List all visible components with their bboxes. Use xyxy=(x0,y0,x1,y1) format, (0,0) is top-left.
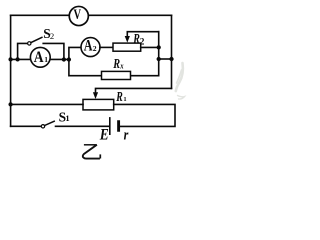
svg-text:V: V xyxy=(74,6,82,22)
junction node: S2 right riser / rail xyxy=(62,57,66,61)
svg-text:R: R xyxy=(132,31,140,46)
switch S2 contact circle xyxy=(28,42,31,45)
ammeter A2 circle xyxy=(81,38,100,57)
switch S1 lever xyxy=(45,121,55,125)
svg-text:1: 1 xyxy=(123,96,126,103)
svg-text:A: A xyxy=(34,49,44,66)
resistor Rx box xyxy=(102,71,131,79)
caption: Chinese character yi xyxy=(83,145,101,159)
wire: R1 slider wire from right frame xyxy=(96,88,172,92)
wire: R2 right lead xyxy=(141,46,159,48)
junction node: bus / link wire xyxy=(157,57,161,61)
wire: S2 right segment and riser down xyxy=(43,43,64,59)
wire: ammeter rail xyxy=(11,58,69,60)
wire: bottom rail to S1 xyxy=(11,125,42,127)
wire: right inner bus down to Rx xyxy=(131,32,159,76)
battery short plate xyxy=(117,122,120,131)
svg-text:x: x xyxy=(119,61,124,71)
wire: top rail left of voltmeter xyxy=(11,14,70,16)
wire: A2 to R2 xyxy=(100,46,113,48)
battery long plate xyxy=(109,118,111,134)
svg-text:E: E xyxy=(99,127,109,144)
arrowhead of rheostat R2 slider xyxy=(125,36,130,43)
junction node: S2 left riser / rail xyxy=(15,57,19,61)
svg-text:2: 2 xyxy=(93,44,97,53)
wire: R1 left lead from left frame xyxy=(11,103,83,105)
wire: left frame vertical xyxy=(10,15,12,126)
rheostat R2 box xyxy=(113,43,141,51)
wire: A2 branch riser from rail xyxy=(69,47,81,59)
svg-text:r: r xyxy=(124,126,129,142)
rheostat R1 box xyxy=(83,99,114,110)
junction node: R2 lead / bus xyxy=(157,45,161,49)
svg-text:R: R xyxy=(112,56,120,72)
wire: top rail right of voltmeter xyxy=(88,14,171,16)
junction node: left frame / rail xyxy=(8,57,12,61)
wire: S2 riser left xyxy=(18,43,28,59)
switch S2 lever xyxy=(31,37,42,42)
svg-text:2: 2 xyxy=(140,37,145,47)
svg-text:R: R xyxy=(115,90,123,105)
svg-text:2: 2 xyxy=(50,31,54,41)
wire: right frame vertical xyxy=(171,15,173,88)
junction node: right frame / link wire xyxy=(169,57,173,61)
wire: R1 right lead into battery loop xyxy=(114,104,175,126)
wire: Rx branch drop from rail xyxy=(69,59,102,75)
junction node: left frame / R1 lead xyxy=(8,102,12,106)
junction node: A2-Rx branch / rail xyxy=(67,57,71,61)
wire: bus to right frame link xyxy=(159,58,172,60)
wire: S1 to battery xyxy=(56,125,110,127)
watermark: faint feather xyxy=(176,63,185,99)
svg-text:1: 1 xyxy=(44,55,48,64)
voltmeter U1 circle xyxy=(69,6,88,25)
svg-text:1: 1 xyxy=(65,113,69,123)
svg-text:A: A xyxy=(84,38,93,55)
wire: R2 slider wire to right bus xyxy=(127,32,158,37)
arrowhead of rheostat R1 slider xyxy=(93,92,98,99)
ammeter A1 circle xyxy=(30,47,50,67)
switch S1 contact circle xyxy=(41,125,44,128)
